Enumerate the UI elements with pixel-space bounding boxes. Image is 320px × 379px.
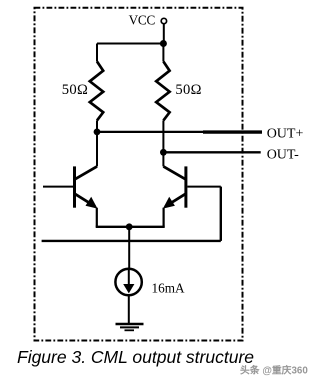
svg-text:50Ω: 50Ω <box>175 82 201 98</box>
svg-text:头条 @重庆360: 头条 @重庆360 <box>240 364 308 377</box>
svg-text:VCC: VCC <box>129 13 156 28</box>
svg-text:50Ω: 50Ω <box>62 82 88 98</box>
svg-text:Figure 3. CML output structure: Figure 3. CML output structure <box>17 347 254 367</box>
svg-text:OUT-: OUT- <box>267 148 299 163</box>
svg-text:16mA: 16mA <box>152 281 185 296</box>
svg-text:OUT+: OUT+ <box>267 126 304 141</box>
